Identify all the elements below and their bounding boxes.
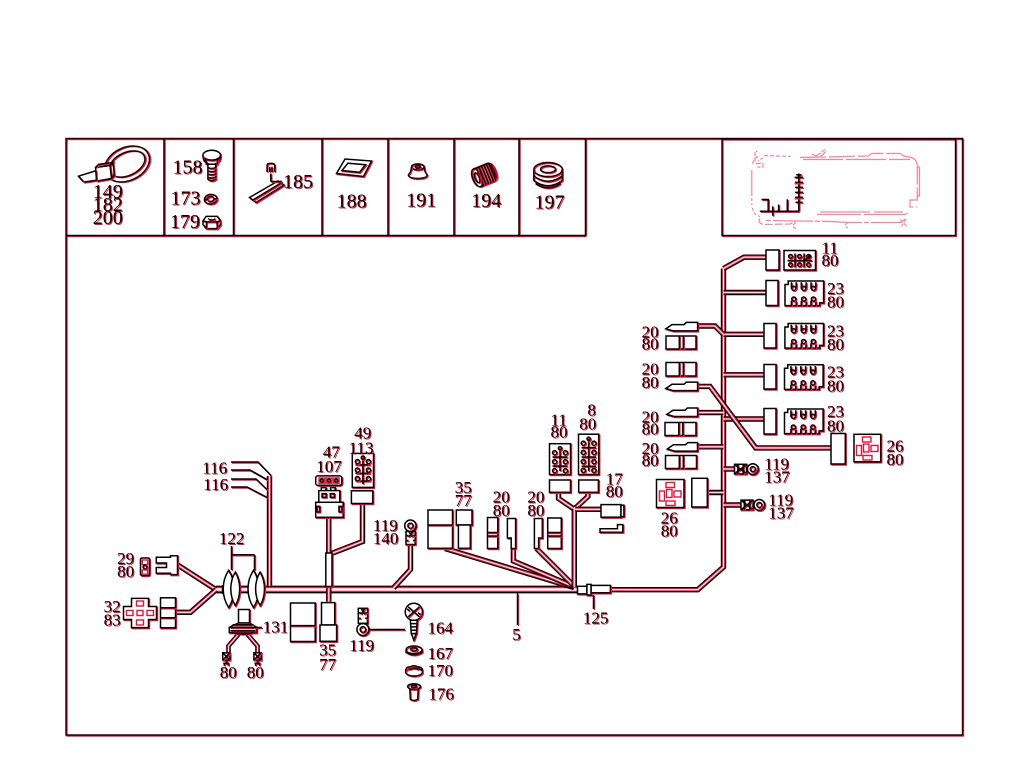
fuse connector 20/80 group4 [666,456,697,469]
leader 119 to screw 164 [369,629,405,631]
clamp 119/140 [406,531,415,544]
wire spade 20/80 group2 to relay 26/80 [697,386,832,448]
plug row2 [766,281,778,306]
wire to connector row 1 [724,257,767,268]
wire to plug 17/80 [576,508,602,510]
connector 35/77 center [428,510,472,548]
sealing ring icon 197 [534,163,562,188]
nut icon 179 [203,216,221,228]
nut 170 [406,666,423,676]
connector 35/77 left [291,603,337,642]
plug of 8/80 [579,480,599,492]
bulb socket 80 right [254,653,261,666]
svg-text:185: 185 [283,171,313,193]
svg-text:77: 77 [455,491,473,510]
wire spade 20/80 group1 [697,326,724,335]
svg-text:80: 80 [642,451,659,470]
wire from clamp 119/140 [394,545,411,589]
svg-text:137: 137 [768,504,794,523]
ring terminal 119/137 lower [741,500,765,511]
spade terminal 20/80 group2 [666,382,698,391]
svg-text:80: 80 [642,335,659,354]
bolt icon 158 [203,150,221,181]
connector housing 11/80 row1 [784,251,816,271]
wires 116 lead-in [231,462,271,498]
ring terminal 119/137 upper [735,464,759,475]
ring 119/140 [405,520,416,531]
spade terminal 20/80 center [534,519,542,549]
svg-text:119: 119 [349,636,374,655]
plug of relay 26/80 left [692,478,708,507]
grommet icon 191 [408,164,427,179]
clip icon 185 [250,163,285,202]
trunk end tick [222,585,224,594]
svg-text:80: 80 [827,293,844,312]
wire from spade 20/80 center-left [513,549,574,588]
svg-text:191: 191 [406,190,436,212]
svg-text:188: 188 [337,191,367,213]
terminal 29/80 bracket [156,556,177,575]
wire from plug of connector 8/80 [576,492,588,508]
svg-text:80: 80 [822,251,839,270]
svg-text:80: 80 [827,377,844,396]
connector housing 23/80 row4 [785,365,824,390]
grommet 122 left [223,570,240,607]
sleeve 176 [408,684,421,701]
bulb socket 80 left [223,653,230,666]
washer icon 173 [204,194,217,204]
svg-text:170: 170 [428,661,454,680]
plug 17/80 [601,505,624,518]
connector housing 23/80 row2 [785,281,824,306]
svg-text:179: 179 [170,211,200,233]
svg-text:83: 83 [104,611,121,630]
connector housing 23/80 row3 [785,324,824,349]
wire from connector 49/113 [332,504,363,554]
fuse connector 20/80 center [548,518,562,549]
wire from connector 35/77 center [445,549,574,588]
plug row4 [764,365,776,390]
svg-text:80: 80 [887,450,904,469]
svg-text:164: 164 [428,619,454,638]
wire Y junction vertical [573,509,575,588]
svg-text:176: 176 [428,685,454,704]
fuse connector 20/80 group3 [665,423,696,436]
svg-text:107: 107 [316,457,342,476]
wire to connector row 2 [724,292,767,294]
harness location sketch (black) [760,174,803,216]
washer 167 [406,646,422,655]
fuse connector 20/80 group1 [666,336,696,349]
wire from relay socket 47/107 [328,517,330,601]
gasket icon 188 [337,159,372,177]
connector 47/107 header [316,476,342,485]
svg-text:80: 80 [579,415,596,434]
leader 5 [517,594,519,626]
fuse connector 20/80 group2 [666,363,696,377]
connector 125 [578,584,611,595]
spade terminal 20/80 group3 [667,408,698,417]
spade terminal 20/80 group1 [666,322,698,331]
svg-text:5: 5 [512,625,521,644]
svg-text:80: 80 [247,663,264,682]
wire from spade 20/80 center [537,549,575,587]
svg-text:140: 140 [373,529,399,548]
connector 32/83 cross [124,598,157,627]
wire to connector row 3 [724,333,765,335]
plug row5 [764,409,776,435]
svg-text:80: 80 [220,663,237,682]
svg-text:131: 131 [263,618,289,637]
plug row3 [764,324,776,349]
svg-text:200: 200 [93,207,123,229]
svg-text:158: 158 [173,157,203,179]
plug row1 [766,250,779,270]
wire to bulb socket 80 right [246,633,258,654]
relay socket 47/107 [316,488,344,518]
svg-text:194: 194 [471,190,501,212]
wire ring terminal 119/137 upper [724,468,736,470]
plug of 49/113 [351,491,372,504]
connector 11/80 center [550,444,571,475]
svg-text:113: 113 [349,439,374,458]
plug of 11/80 center [550,480,571,492]
spade terminal 20/80 group4 [667,443,697,452]
connector 8/80 [579,434,599,474]
harness red marks in car [795,184,804,199]
svg-text:80: 80 [551,423,568,442]
outer frame [66,139,963,736]
wire riser to connector stack [611,269,724,590]
svg-text:80: 80 [642,373,659,392]
svg-text:80: 80 [827,335,844,354]
leader 125 [593,595,595,609]
svg-text:80: 80 [493,501,510,520]
connector housing 23/80 row5 [785,409,824,434]
cable tie icon 149/182/200 [79,139,156,189]
svg-text:122: 122 [219,529,245,548]
svg-text:116: 116 [203,475,228,494]
screw 164 [405,603,422,640]
fuse connector 20/80 center-left [488,518,498,549]
plug of relay 26/80 right [831,434,845,465]
leader 131 [257,627,262,629]
relay 26/80 right [854,434,881,462]
svg-text:80: 80 [827,417,844,436]
svg-text:77: 77 [319,655,337,674]
sleeve on wire 47 [326,553,332,587]
wire to bulb socket 80 left [229,633,241,654]
relay 26/80 left [657,480,685,508]
svg-text:80: 80 [117,562,134,581]
car location box [722,139,956,236]
terminal strip 17/80 [600,525,623,533]
grommet 131 [229,610,256,635]
wire relay 26/80 left [707,492,724,494]
grommet icon 194 [469,162,498,189]
wire to connector row 4 [724,374,765,376]
wire to connector row 5 [724,418,765,420]
wire to connector 32/83 [175,590,216,613]
connector 49/113 [352,453,373,487]
svg-text:173: 173 [171,188,201,210]
wire 116 vertical drop [269,476,271,586]
svg-text:80: 80 [661,522,678,541]
wire from plug of connector 11/80 center [559,492,574,508]
clamp 119 bottom [357,608,369,635]
wire ring terminal 119/137 lower [724,504,742,506]
terminal 29/80 small [141,558,150,576]
bracket 122 [232,546,255,570]
svg-text:137: 137 [764,468,790,487]
car outline (pink) [752,150,920,229]
wire spade 20/80 group3 [697,412,724,414]
wire main trunk 5 [216,589,577,591]
svg-text:80: 80 [642,420,659,439]
svg-text:125: 125 [583,609,609,628]
connector 32/83 stack [161,598,176,628]
spade terminal 20/80 center-left [507,519,515,549]
parts strip borders [66,139,586,236]
svg-text:80: 80 [606,482,623,501]
svg-text:80: 80 [527,501,544,520]
wire to terminal 29/80 [177,565,216,590]
svg-text:197: 197 [535,192,565,214]
grommet 122 right [248,570,265,607]
wire spade 20/80 group4 [697,446,724,448]
